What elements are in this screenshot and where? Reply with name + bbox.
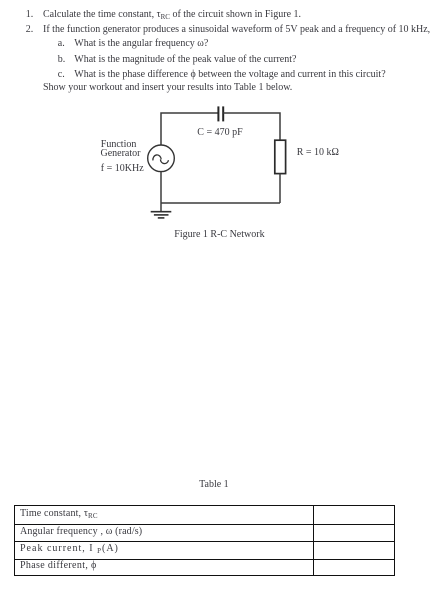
resistor R1 body [275,140,286,173]
capacitor C = 470 pF [218,106,223,121]
label: resistor value [297,148,339,158]
wire capacitor to resistor [223,113,280,140]
ground [151,212,172,218]
wire generator to ground [160,172,162,212]
circuit schematic [0,0,433,260]
table 1 [14,505,395,576]
caption table [199,480,229,490]
wire bottom [161,202,280,204]
caption figure [174,230,264,240]
wire top-left (node A to capacitor) [161,113,218,145]
wire resistor to bottom [279,174,281,203]
document text [26,10,34,20]
sine symbol [153,155,169,164]
label: capacitor value [197,128,242,138]
label: function generator [101,140,137,150]
function generator source [148,145,175,172]
